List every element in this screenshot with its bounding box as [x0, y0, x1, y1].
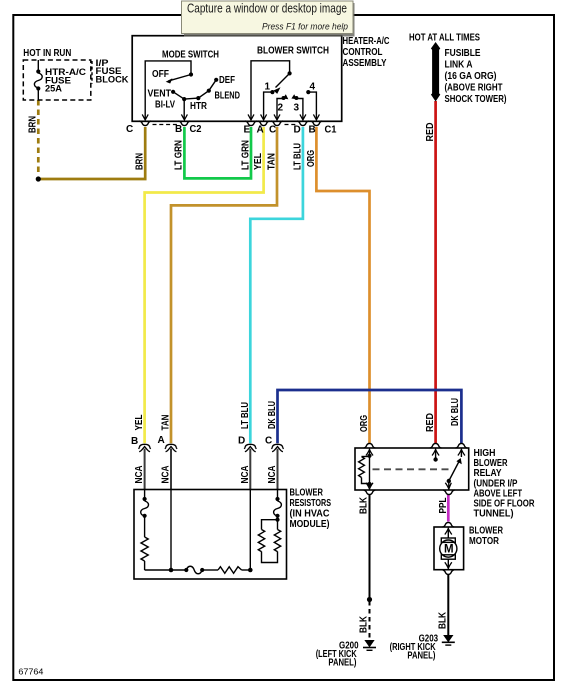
svg-text:BLOCK: BLOCK: [96, 75, 129, 86]
svg-text:MOTOR: MOTOR: [469, 536, 500, 547]
svg-text:TAN: TAN: [267, 153, 278, 170]
svg-text:BLOWER: BLOWER: [469, 526, 504, 537]
svg-text:DK BLU: DK BLU: [450, 398, 461, 426]
svg-text:RESISTORS: RESISTORS: [290, 498, 332, 509]
svg-text:SHOCK TOWER): SHOCK TOWER): [445, 94, 507, 105]
svg-text:CONTROL: CONTROL: [343, 47, 383, 58]
svg-text:NCA: NCA: [161, 466, 172, 484]
svg-text:ORG: ORG: [359, 415, 370, 432]
svg-text:HOT AT ALL TIMES: HOT AT ALL TIMES: [409, 33, 480, 44]
svg-text:HTR: HTR: [190, 101, 208, 112]
svg-text:C: C: [265, 435, 272, 446]
svg-text:NCA: NCA: [240, 466, 251, 484]
svg-text:(16 GA ORG): (16 GA ORG): [445, 71, 497, 82]
svg-text:2: 2: [278, 103, 284, 114]
svg-text:C: C: [269, 125, 276, 136]
svg-text:HEATER-A/C: HEATER-A/C: [343, 36, 390, 47]
svg-text:LINK A: LINK A: [445, 60, 473, 71]
svg-text:BLK: BLK: [437, 611, 448, 629]
svg-text:LT BLU: LT BLU: [293, 143, 304, 170]
svg-text:BRN: BRN: [135, 153, 146, 170]
svg-text:NCA: NCA: [134, 466, 145, 484]
svg-text:(IN HVAC: (IN HVAC: [290, 509, 330, 520]
svg-text:B: B: [131, 436, 138, 447]
svg-text:3: 3: [294, 103, 300, 114]
svg-text:YEL: YEL: [134, 415, 145, 431]
svg-text:Press F1 for more help: Press F1 for more help: [262, 22, 348, 33]
svg-text:1: 1: [265, 82, 271, 93]
svg-text:B: B: [309, 125, 316, 136]
svg-text:HOT IN RUN: HOT IN RUN: [23, 48, 71, 59]
svg-text:BI-LV: BI-LV: [155, 100, 175, 111]
svg-text:LT GRN: LT GRN: [174, 140, 185, 170]
svg-text:M: M: [444, 544, 454, 556]
svg-text:YEL: YEL: [253, 153, 264, 170]
svg-text:E: E: [244, 125, 251, 136]
svg-text:RED: RED: [425, 123, 436, 142]
svg-text:C1: C1: [325, 125, 337, 136]
svg-text:MODULE): MODULE): [290, 519, 330, 530]
svg-text:ASSEMBLY: ASSEMBLY: [343, 58, 387, 69]
svg-text:TAN: TAN: [161, 415, 172, 431]
svg-text:B: B: [175, 124, 182, 135]
svg-text:MODE SWITCH: MODE SWITCH: [162, 50, 219, 61]
svg-text:LT BLU: LT BLU: [240, 402, 251, 429]
svg-text:D: D: [238, 435, 245, 446]
svg-text:A: A: [158, 435, 165, 446]
svg-text:4: 4: [310, 82, 316, 93]
svg-text:NCA: NCA: [267, 466, 278, 484]
svg-text:BLEND: BLEND: [215, 91, 241, 102]
svg-text:BLOWER: BLOWER: [290, 488, 324, 499]
svg-text:BLOWER SWITCH: BLOWER SWITCH: [257, 46, 329, 57]
svg-text:FUSIBLE: FUSIBLE: [445, 48, 481, 59]
svg-text:D: D: [294, 125, 301, 136]
svg-text:BRN: BRN: [28, 116, 39, 133]
svg-text:25A: 25A: [45, 83, 62, 94]
svg-text:C2: C2: [190, 124, 202, 135]
svg-text:OFF: OFF: [152, 69, 169, 80]
svg-text:C: C: [126, 124, 133, 135]
svg-text:A: A: [257, 125, 264, 136]
svg-text:67764: 67764: [18, 667, 43, 677]
svg-text:VENT: VENT: [148, 89, 172, 100]
svg-text:LT GRN: LT GRN: [241, 140, 252, 170]
svg-text:BLK: BLK: [359, 496, 370, 514]
svg-text:DK BLU: DK BLU: [267, 401, 278, 429]
svg-text:PANEL): PANEL): [328, 658, 356, 669]
svg-text:BLK: BLK: [359, 615, 370, 633]
svg-text:DEF: DEF: [219, 75, 235, 86]
svg-text:RED: RED: [425, 413, 436, 432]
svg-text:ORG: ORG: [306, 150, 317, 167]
svg-text:Capture a window or desktop im: Capture a window or desktop image: [187, 1, 347, 16]
svg-text:PANEL): PANEL): [407, 651, 435, 662]
svg-text:TUNNEL): TUNNEL): [474, 508, 514, 519]
svg-text:PPL: PPL: [438, 498, 449, 514]
svg-text:(ABOVE RIGHT: (ABOVE RIGHT: [445, 83, 503, 94]
